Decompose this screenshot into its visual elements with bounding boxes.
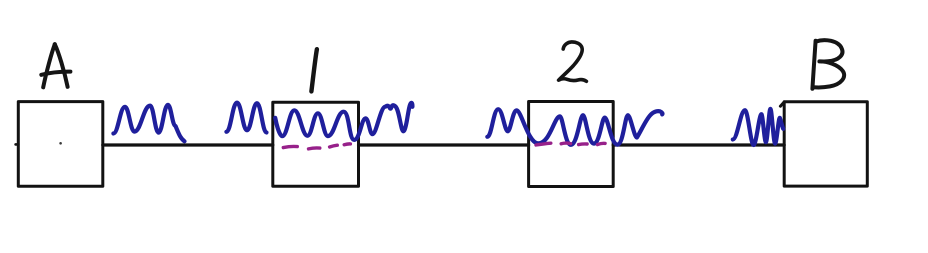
attenuation dashes in 1 xyxy=(283,144,350,149)
wire 1 to 2 xyxy=(359,143,529,146)
dot inside box A xyxy=(59,142,62,145)
node B (box B) xyxy=(780,102,867,186)
wire A to 1 xyxy=(103,143,273,146)
signal wave after A xyxy=(113,105,184,142)
signal wave through 2 xyxy=(487,109,662,145)
signal wave entering 1 xyxy=(226,103,266,133)
signal wave entering B xyxy=(733,109,783,145)
repeater 1 (box 1) xyxy=(273,102,359,186)
label A xyxy=(41,44,70,87)
label 2 xyxy=(559,42,587,81)
label 1 xyxy=(311,49,317,91)
repeater 2 (box 2) xyxy=(529,102,614,187)
node A (box A) xyxy=(16,102,103,187)
attenuation dashes in 2 xyxy=(536,143,605,145)
signal wave through 1 xyxy=(275,103,412,140)
label B xyxy=(812,40,844,89)
wire 2 to B xyxy=(613,143,784,146)
